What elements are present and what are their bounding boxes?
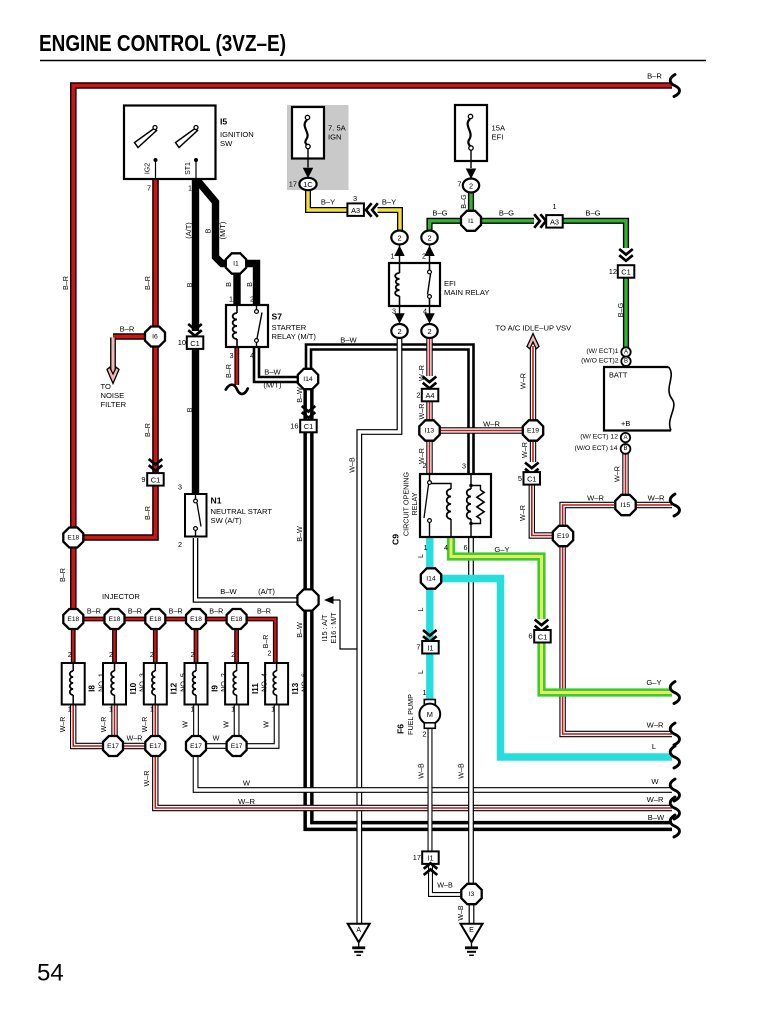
svg-text:W: W bbox=[243, 779, 251, 788]
arrow to noise filter bbox=[107, 367, 119, 383]
svg-text:C1: C1 bbox=[190, 339, 199, 348]
junction I15 bbox=[615, 495, 635, 515]
svg-text:W–R: W–R bbox=[647, 721, 664, 730]
wire W-R EFI relay pin4 to A4 bbox=[426, 338, 432, 376]
label W-R relay4 a bbox=[417, 365, 426, 381]
arrow to A/C idle-up VSV bbox=[527, 334, 539, 349]
junction I13 bbox=[419, 420, 439, 440]
ignition switch pin ST1 bbox=[185, 158, 198, 179]
label W-R exit vert bbox=[142, 771, 151, 787]
injector I8 NO. 1 bbox=[62, 663, 85, 705]
svg-text:B–W: B–W bbox=[648, 813, 665, 822]
svg-text:2: 2 bbox=[231, 652, 235, 659]
svg-text:IG2: IG2 bbox=[145, 163, 152, 174]
svg-text:B: B bbox=[185, 282, 194, 287]
label W/O ECT 2 bbox=[581, 358, 619, 365]
title ENGINE CONTROL (3VZ-E) bbox=[39, 30, 286, 56]
label B-W above bbox=[340, 336, 357, 345]
wire B-R E18 to injector no3 bbox=[112, 630, 117, 663]
svg-text:B–R: B–R bbox=[143, 276, 152, 290]
svg-text:B–G: B–G bbox=[432, 209, 447, 218]
wire W-R E19 up to A/C idle-up VSV bbox=[530, 346, 536, 420]
svg-text:E: E bbox=[469, 927, 474, 934]
svg-text:I14: I14 bbox=[303, 376, 313, 383]
svg-text:2: 2 bbox=[397, 327, 401, 336]
wire B-W neutral start switch to junction bbox=[196, 538, 298, 600]
svg-text:W: W bbox=[223, 721, 230, 728]
svg-text:B–R: B–R bbox=[143, 506, 152, 520]
fuel pump motor bbox=[419, 700, 440, 729]
svg-text:17: 17 bbox=[289, 180, 297, 189]
label 2 inj5 bbox=[231, 652, 235, 659]
wire B-R E18 to injector no4 bbox=[234, 630, 239, 663]
svg-text:B: B bbox=[204, 228, 213, 233]
junction I1 (black) bbox=[226, 253, 246, 273]
svg-text:(A/T): (A/T) bbox=[184, 222, 193, 238]
label 17 i1 bbox=[413, 853, 421, 862]
svg-text:2: 2 bbox=[68, 652, 72, 659]
svg-text:B–W: B–W bbox=[220, 587, 237, 596]
label L exit bbox=[652, 742, 656, 751]
injector I10 NO. 3 bbox=[103, 663, 126, 705]
connector oval 2 (relay pin3) bbox=[391, 324, 407, 338]
pin 1 label bbox=[188, 184, 192, 193]
svg-text:A: A bbox=[356, 927, 361, 934]
svg-text:W–B: W–B bbox=[437, 881, 453, 890]
wire B thick ST1 A/T bbox=[192, 179, 199, 494]
label B-R chain 4 bbox=[209, 607, 223, 616]
label W-R vertical batt bbox=[613, 466, 622, 482]
svg-text:1: 1 bbox=[191, 707, 195, 714]
label 2 pin bbox=[422, 252, 426, 261]
connector circle A (W/ ECT) bbox=[621, 347, 630, 356]
connector oval 2 (B-G to relay pin2) bbox=[421, 231, 437, 245]
label W inj5 bbox=[223, 721, 230, 728]
junction I14 cyan bbox=[421, 568, 441, 588]
wire W injector no4 to E17 bbox=[234, 705, 240, 736]
svg-text:B–Y: B–Y bbox=[321, 198, 335, 207]
label B at bbox=[185, 282, 194, 287]
svg-text:I6: I6 bbox=[152, 334, 158, 341]
label I5 bbox=[220, 117, 227, 127]
svg-text:RELAY: RELAY bbox=[410, 492, 419, 515]
label B-G 2 bbox=[499, 209, 514, 218]
label B-W s7pin4 bbox=[264, 368, 281, 377]
svg-text:W–R: W–R bbox=[520, 442, 529, 458]
svg-text:E17: E17 bbox=[149, 743, 161, 750]
junction E18 #5 bbox=[227, 609, 247, 629]
label TO A/C IDLE-UP VSV bbox=[496, 324, 573, 333]
label 1 pin bbox=[391, 252, 395, 261]
svg-text:NEUTRAL START: NEUTRAL START bbox=[211, 507, 273, 516]
label M/T bbox=[218, 222, 227, 240]
wire B thick I1 to starter relay pin1 bbox=[233, 272, 240, 305]
svg-text:B: B bbox=[623, 446, 627, 452]
curl L exit bbox=[670, 746, 679, 768]
label W-R far exit bbox=[647, 795, 664, 804]
wire W-B 17-I1 to I3 bbox=[431, 862, 462, 895]
wire B-G fuse EFI to I1 bbox=[468, 193, 474, 211]
injector I9 NO. 2 bbox=[185, 663, 208, 705]
label 17 bbox=[289, 180, 297, 189]
curl G-Y exit bbox=[670, 682, 679, 704]
svg-text:I10: I10 bbox=[129, 682, 138, 694]
svg-text:I8: I8 bbox=[88, 685, 97, 692]
wire B-G A3 to battery via 12-C1 bbox=[562, 221, 626, 348]
label 4 s7 bbox=[250, 351, 254, 360]
starter relay coil bbox=[233, 305, 237, 347]
svg-text:2: 2 bbox=[250, 295, 254, 304]
svg-text:B–R: B–R bbox=[143, 423, 152, 437]
svg-text:2: 2 bbox=[427, 234, 431, 243]
connector 16-C1 bbox=[300, 406, 317, 432]
label I11 bbox=[251, 683, 260, 694]
svg-text:I11: I11 bbox=[251, 683, 260, 694]
starter relay switch bbox=[255, 305, 262, 347]
label I13 bbox=[291, 682, 300, 694]
svg-text:E18: E18 bbox=[109, 616, 121, 623]
svg-text:E16 : M/T: E16 : M/T bbox=[329, 612, 338, 644]
connector 17-I1 bbox=[422, 851, 439, 875]
wire B-R noise filter drop (pink) bbox=[110, 338, 116, 372]
junction E18 #4 bbox=[186, 609, 206, 629]
label 2 s7 bbox=[250, 295, 254, 304]
label 1 inj4 bbox=[191, 707, 195, 714]
svg-text:2: 2 bbox=[423, 730, 427, 739]
svg-text:A: A bbox=[623, 435, 627, 441]
svg-text:7: 7 bbox=[147, 184, 151, 193]
label F6 bbox=[396, 724, 406, 734]
svg-text:1: 1 bbox=[109, 707, 113, 714]
starter relay S7 box bbox=[226, 305, 268, 347]
wire W-R injector no5 to E17 bbox=[152, 705, 158, 736]
svg-text:1: 1 bbox=[150, 707, 154, 714]
svg-text:W–R: W–R bbox=[142, 771, 151, 787]
label B-R chain 6 vert bbox=[263, 635, 270, 649]
label 2 inj6 bbox=[268, 651, 272, 658]
svg-text:W–R: W–R bbox=[587, 494, 604, 503]
svg-text:NO. 2: NO. 2 bbox=[219, 673, 228, 692]
svg-text:15A: 15A bbox=[492, 124, 506, 133]
svg-text:9: 9 bbox=[141, 475, 145, 484]
label W-B cor bbox=[457, 763, 466, 779]
svg-text:E19: E19 bbox=[557, 533, 569, 540]
svg-text:W–R: W–R bbox=[613, 466, 622, 482]
svg-text:C1: C1 bbox=[527, 474, 536, 483]
wire B-R noise filter branch bbox=[113, 333, 146, 340]
svg-text:B: B bbox=[224, 282, 233, 287]
svg-text:4: 4 bbox=[444, 543, 448, 552]
junction E17 #4 bbox=[227, 736, 247, 756]
label L 1 bbox=[416, 554, 425, 558]
svg-text:G–Y: G–Y bbox=[494, 545, 509, 554]
svg-text:A4: A4 bbox=[425, 391, 434, 400]
label NEUTRAL START SW bbox=[211, 507, 273, 525]
ground E bbox=[461, 924, 483, 956]
label B-G 1 bbox=[432, 209, 447, 218]
svg-text:W–R: W–R bbox=[518, 505, 527, 521]
wire B-Y fuse 1C to A3 bbox=[308, 190, 348, 210]
svg-text:17: 17 bbox=[413, 853, 421, 862]
label W-R e19 down bbox=[520, 442, 529, 458]
label 1 inj6 bbox=[271, 707, 275, 714]
svg-text:E17: E17 bbox=[190, 743, 202, 750]
injector I13 NO. 6 bbox=[265, 663, 288, 705]
label 3 pin bbox=[392, 307, 396, 316]
svg-text:1C: 1C bbox=[303, 180, 313, 189]
label B-W below I14 bbox=[295, 387, 304, 403]
wire W-R I13 to circuit opening relay pin2 bbox=[426, 441, 432, 474]
label B pin2 bbox=[245, 282, 254, 287]
svg-text:B: B bbox=[245, 282, 254, 287]
svg-text:E18: E18 bbox=[231, 616, 243, 623]
label W–R inj2 bbox=[101, 717, 108, 733]
label E16 M/T bbox=[329, 612, 338, 644]
label FUEL PUMP bbox=[406, 694, 415, 735]
svg-text:NO. 5: NO. 5 bbox=[178, 673, 187, 692]
svg-text:B–G: B–G bbox=[499, 209, 514, 218]
label 1 bbox=[552, 202, 556, 211]
junction E17 #2 bbox=[145, 736, 165, 756]
svg-text:TO: TO bbox=[101, 382, 112, 391]
svg-text:(A/T): (A/T) bbox=[258, 587, 275, 596]
neutral start switch N1 box bbox=[185, 494, 207, 537]
svg-text:B–R: B–R bbox=[224, 364, 233, 378]
wire L circuit opening relay pin1 to I14 bbox=[426, 538, 433, 569]
svg-text:1: 1 bbox=[552, 202, 556, 211]
connector 6-C1 bbox=[534, 630, 551, 643]
svg-text:+B: +B bbox=[621, 419, 630, 428]
svg-text:B–R: B–R bbox=[647, 72, 662, 81]
svg-text:2: 2 bbox=[178, 540, 182, 549]
svg-text:2: 2 bbox=[150, 652, 154, 659]
lead EFI relay pin3 arrow bbox=[394, 306, 405, 324]
connector circle A lower bbox=[621, 433, 630, 442]
label 2 inj4 bbox=[191, 652, 195, 659]
wire W-B EFI relay pin3 to ground A bbox=[359, 338, 399, 924]
label A/T n1 bbox=[258, 587, 275, 596]
label B-R chain 5 bbox=[257, 607, 271, 616]
connector 12-C1 bbox=[618, 249, 635, 278]
svg-text:TO A/C IDLE–UP VSV: TO A/C IDLE–UP VSV bbox=[496, 324, 573, 333]
svg-text:A3: A3 bbox=[351, 206, 360, 215]
label W–R inj3 bbox=[142, 717, 149, 733]
label W/ECT 1 bbox=[586, 348, 618, 355]
curl B-R exit bbox=[670, 75, 679, 97]
wire W-R I13 to E19 bbox=[440, 427, 522, 433]
label B-W trunk 2 bbox=[295, 622, 304, 638]
svg-text:B–W: B–W bbox=[295, 526, 304, 542]
svg-text:2: 2 bbox=[109, 652, 113, 659]
label 2 inj3 bbox=[150, 652, 154, 659]
chevrons into 6-C1 bbox=[535, 620, 549, 632]
EFI main relay switch bbox=[428, 263, 432, 306]
junction I3 bbox=[461, 884, 481, 904]
label W exit bbox=[243, 779, 251, 788]
label G-Y exit bbox=[646, 678, 661, 687]
lead EFI relay pin1 bbox=[394, 244, 405, 263]
fuse 15A EFI box bbox=[455, 105, 487, 161]
page number 54 bbox=[37, 960, 64, 987]
label B-R s7pin3 bbox=[224, 364, 233, 378]
junction E18 #3 bbox=[145, 609, 165, 629]
svg-text:NOISE: NOISE bbox=[101, 391, 125, 400]
wire G-Y 6-C1 to right exit bbox=[542, 642, 673, 693]
svg-text:2: 2 bbox=[416, 391, 420, 400]
wire B-Y A3 to EFI relay pin1 bbox=[378, 210, 401, 231]
label W far exit bbox=[651, 777, 659, 786]
label N1 bbox=[211, 496, 222, 506]
gray fuse panel background bbox=[287, 105, 349, 190]
EFI main relay box bbox=[389, 263, 440, 306]
svg-text:I15 : A/T: I15 : A/T bbox=[320, 614, 329, 641]
label 7. 5A IGN bbox=[328, 124, 347, 142]
label 1 s7 bbox=[229, 295, 233, 304]
connector 2-A4 bbox=[422, 377, 439, 402]
svg-text:NO. 6: NO. 6 bbox=[300, 673, 309, 692]
svg-text:2: 2 bbox=[469, 182, 473, 191]
svg-text:7: 7 bbox=[416, 643, 420, 652]
svg-text:C1: C1 bbox=[621, 268, 630, 277]
lead EFI relay pin4 arrow bbox=[424, 306, 435, 324]
svg-text:W–R: W–R bbox=[519, 373, 528, 389]
label B-R border 2 bbox=[58, 568, 67, 582]
svg-text:F6: F6 bbox=[396, 724, 406, 734]
wire B thick I1 to starter relay pin2 bbox=[243, 264, 257, 306]
wire L I14 down to 7-I1 bbox=[426, 589, 433, 641]
curl W exit bbox=[670, 779, 679, 801]
wire B-G I1 to EFI relay pin2 bbox=[430, 221, 463, 231]
label 1 cor bbox=[424, 543, 428, 552]
label 6 cor bbox=[464, 543, 468, 552]
label B-Y right bbox=[382, 198, 396, 207]
curl W-R bottom exit bbox=[670, 797, 679, 819]
label 15A EFI bbox=[492, 124, 506, 142]
annotation arrow I15/E16 bbox=[324, 596, 357, 649]
wire W-R lower E19 up to I15 bbox=[563, 505, 614, 525]
svg-text:ENGINE CONTROL (3VZ–E): ENGINE CONTROL (3VZ–E) bbox=[39, 30, 286, 56]
svg-text:W–R: W–R bbox=[417, 404, 426, 420]
label NO. 1 bbox=[96, 673, 105, 692]
label B-W trunk bbox=[295, 526, 304, 542]
label B-R chain 1 bbox=[87, 607, 101, 616]
svg-text:B–R: B–R bbox=[263, 635, 270, 649]
label B pin1 bbox=[224, 282, 233, 287]
label W-R relay4 c bbox=[417, 448, 426, 464]
junction E19 lower bbox=[553, 526, 573, 546]
connector 10-C1 bbox=[187, 324, 204, 349]
ignition switch blade IG2 bbox=[135, 126, 158, 148]
label B-R exit bbox=[647, 72, 662, 81]
svg-text:3: 3 bbox=[462, 462, 466, 471]
svg-text:L: L bbox=[416, 554, 425, 558]
svg-text:E18: E18 bbox=[190, 616, 202, 623]
label BATT bbox=[609, 371, 628, 380]
svg-text:I15: I15 bbox=[621, 502, 631, 509]
wire L I14 to right exit bbox=[441, 579, 672, 758]
svg-text:54: 54 bbox=[37, 960, 64, 987]
svg-text:7: 7 bbox=[457, 180, 461, 189]
label IGNITION SW bbox=[220, 130, 254, 148]
label I8 bbox=[88, 685, 97, 692]
junction E18 #2 bbox=[105, 609, 125, 629]
svg-text:G–Y: G–Y bbox=[646, 678, 661, 687]
svg-text:W–R: W–R bbox=[647, 795, 664, 804]
svg-text:B–R: B–R bbox=[120, 325, 135, 334]
label W-R relay4 b bbox=[417, 404, 426, 420]
label W-R exit bbox=[238, 797, 255, 806]
wire W injector no6 to E17 bbox=[247, 705, 277, 747]
label 5 bbox=[518, 474, 522, 483]
label 1 inj1 bbox=[68, 707, 72, 714]
wire B-W I14 down to junction 16-C1 bbox=[303, 389, 313, 420]
svg-text:2: 2 bbox=[423, 461, 427, 470]
wire W-R lower E19 down to right exit bbox=[563, 547, 672, 735]
wire L 7-I1 to fuel pump bbox=[426, 653, 433, 700]
svg-text:N1: N1 bbox=[211, 496, 222, 506]
wire W-R A4 to I13 bbox=[426, 401, 432, 420]
ground A bbox=[348, 924, 370, 956]
label 10 bbox=[178, 338, 186, 347]
label B-W exit bbox=[648, 813, 665, 822]
label B-W n1 bbox=[220, 587, 237, 596]
svg-text:1: 1 bbox=[68, 707, 72, 714]
label RELAY bbox=[410, 492, 419, 515]
circuit opening relay C9 box bbox=[420, 474, 491, 537]
connector oval 2 (relay pin4) bbox=[421, 324, 437, 338]
svg-text:E17: E17 bbox=[107, 743, 119, 750]
label B-G 3 bbox=[585, 209, 600, 218]
svg-text:W–R: W–R bbox=[483, 420, 500, 429]
connector A3 (B-G) bbox=[546, 215, 563, 228]
svg-text:B–W: B–W bbox=[264, 368, 281, 377]
wire B-R starter relay pin3 bbox=[234, 348, 239, 386]
svg-text:I12: I12 bbox=[170, 682, 179, 694]
svg-text:B–Y: B–Y bbox=[382, 198, 396, 207]
lead EFI relay pin2 bbox=[424, 244, 435, 263]
svg-text:E17: E17 bbox=[231, 743, 243, 750]
svg-text:B–G: B–G bbox=[616, 302, 625, 317]
label 7 bbox=[457, 180, 461, 189]
svg-text:IGN: IGN bbox=[328, 133, 342, 142]
connector 9-C1 bbox=[147, 459, 164, 486]
junction I14 bbox=[298, 369, 318, 389]
svg-text:W–B: W–B bbox=[458, 905, 465, 921]
svg-text:I13: I13 bbox=[291, 682, 300, 694]
label M/T s7pin4 bbox=[263, 381, 282, 390]
fuse 7.5A IGN box bbox=[292, 107, 324, 159]
ignition switch blade ST1 bbox=[176, 126, 199, 148]
svg-text:M: M bbox=[427, 710, 433, 719]
svg-text:W–B: W–B bbox=[348, 457, 357, 473]
label B-Y left bbox=[321, 198, 335, 207]
label 4 cor bbox=[444, 543, 448, 552]
ignition switch pin IG2 bbox=[145, 158, 158, 179]
label I9 bbox=[210, 685, 219, 692]
svg-text:L: L bbox=[416, 608, 425, 612]
label B-G vertical bbox=[459, 194, 468, 209]
wire B-G I1 to A3 bbox=[480, 218, 534, 224]
svg-text:INJECTOR: INJECTOR bbox=[102, 592, 140, 601]
label C9 bbox=[391, 534, 401, 545]
injector I11 NO. 4 bbox=[225, 663, 248, 705]
svg-text:I13: I13 bbox=[425, 428, 435, 435]
svg-text:B–W: B–W bbox=[295, 387, 304, 403]
svg-text:W: W bbox=[651, 777, 659, 786]
svg-text:W–B: W–B bbox=[457, 763, 466, 779]
svg-text:W–R: W–R bbox=[142, 717, 149, 733]
svg-text:NO. 4: NO. 4 bbox=[260, 673, 269, 692]
